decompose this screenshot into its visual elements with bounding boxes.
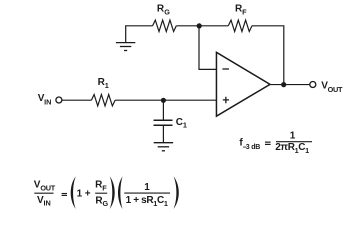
svg-text:IN: IN [44,97,51,106]
svg-text:F: F [102,183,107,192]
svg-text:1: 1 [290,130,296,141]
svg-text:1: 1 [105,81,109,90]
svg-text:F: F [242,8,247,17]
svg-text:1: 1 [77,189,83,200]
svg-text:f: f [239,137,243,148]
svg-text:2πR1C1: 2πR1C1 [275,142,309,155]
svg-text:1 + sR1C1: 1 + sR1C1 [126,195,168,208]
svg-text:+: + [85,189,91,200]
svg-text:1: 1 [144,182,150,193]
svg-text:G: G [103,199,109,208]
svg-text:C: C [176,117,183,128]
svg-text:IN: IN [44,199,51,208]
svg-text:3 dB: 3 dB [246,144,261,151]
svg-text:OUT: OUT [328,85,343,94]
svg-text:OUT: OUT [40,184,55,193]
svg-text:G: G [164,8,170,17]
svg-text:1: 1 [183,120,187,129]
